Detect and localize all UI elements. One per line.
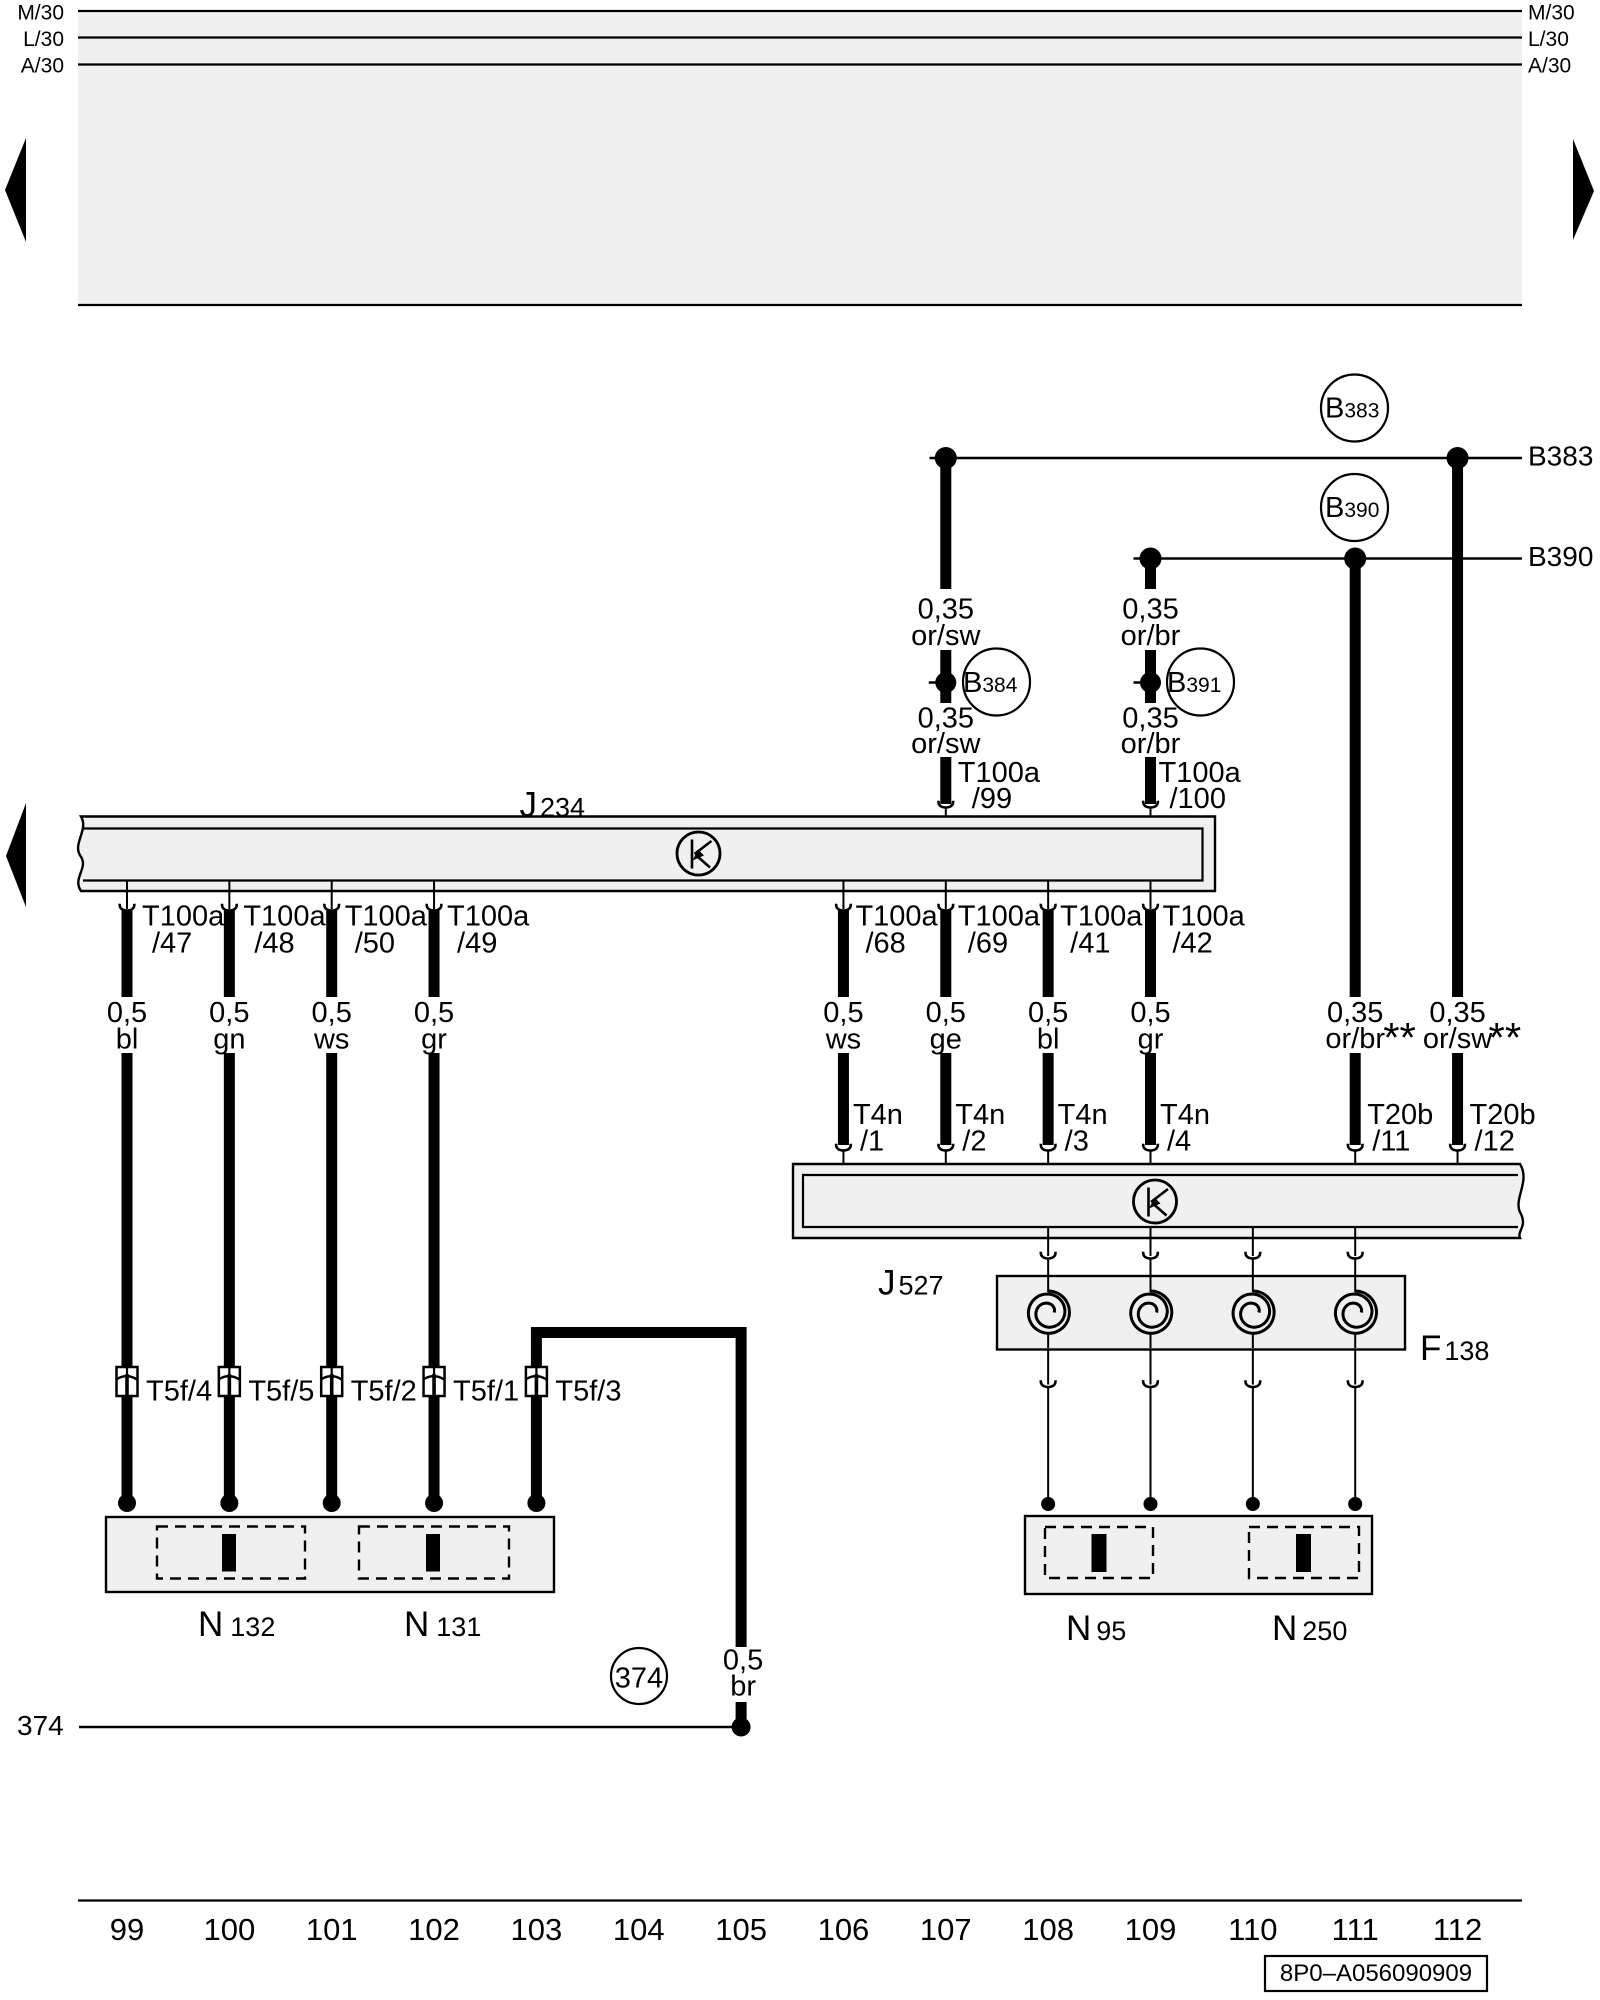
wire 0,5 bl lower segment col108 xyxy=(1043,1053,1054,1145)
F138 element lead top col109 xyxy=(1150,1277,1152,1292)
svg-text:103: 103 xyxy=(511,1912,563,1947)
svg-text:/49: /49 xyxy=(457,928,497,960)
wire segment T5f/1 to N box xyxy=(429,1396,440,1499)
connector cup F138 out col109 xyxy=(1143,1380,1158,1387)
connector cup J527-F138 col110 xyxy=(1246,1252,1261,1259)
pin stub J527 bottom col109 xyxy=(1150,1227,1152,1256)
pin stub J234 bottom T100a/68 xyxy=(842,881,844,910)
svg-text:/3: /3 xyxy=(1065,1126,1089,1158)
connector cup T4n/4 xyxy=(1143,1144,1158,1151)
pin stub into J527 top col108 xyxy=(1047,1151,1049,1177)
wire 0,5 br elbow run xyxy=(536,1333,741,1648)
wire net B390 horizontal xyxy=(1134,557,1523,559)
pin stub J234 bottom T100a/50 xyxy=(331,881,333,910)
connector cup T100a/100 xyxy=(1143,801,1158,808)
svg-text:102: 102 xyxy=(408,1912,460,1947)
svg-text:374: 374 xyxy=(615,1663,663,1695)
drawing number box xyxy=(1265,1956,1487,1991)
connector T5f/4 xyxy=(117,1367,138,1396)
svg-text:/42: /42 xyxy=(1173,928,1213,960)
svg-text:/69: /69 xyxy=(968,928,1008,960)
svg-text:gn: gn xyxy=(213,1024,245,1056)
svg-text:111: 111 xyxy=(1332,1912,1379,1947)
svg-text:bl: bl xyxy=(116,1024,139,1056)
pin stub J234 bottom T100a/49 xyxy=(433,881,435,910)
N132 element dashed outline xyxy=(157,1527,305,1579)
svg-text:or/br: or/br xyxy=(1121,620,1181,652)
F138 element lead top col111 xyxy=(1354,1277,1356,1292)
pin stub into J527 top col106 xyxy=(842,1151,844,1177)
svg-text:374: 374 xyxy=(17,1710,64,1741)
N132 element bar xyxy=(222,1534,236,1572)
pin stub F138 bottom col109 xyxy=(1150,1350,1152,1385)
connector cup T100a/42 xyxy=(1143,904,1158,911)
pin stub F138 bottom col111 xyxy=(1354,1350,1356,1385)
svg-text:**: ** xyxy=(1489,1014,1522,1061)
svg-text:T5f/2: T5f/2 xyxy=(351,1376,417,1408)
svg-text:/100: /100 xyxy=(1170,783,1226,815)
svg-text:107: 107 xyxy=(920,1912,972,1947)
svg-text:L/30: L/30 xyxy=(1528,28,1569,51)
wire 0,35 or/br upper segment xyxy=(1145,559,1156,590)
wire 0,5 gn lower segment col100 xyxy=(224,1053,235,1367)
junction on B390 at col109 xyxy=(1140,548,1162,570)
wire 0,35 or/br middle segment xyxy=(1145,650,1156,703)
continuation arrow left top xyxy=(5,138,26,242)
glow element spiral col110 xyxy=(1233,1291,1274,1333)
svg-text:109: 109 xyxy=(1125,1912,1177,1947)
svg-text:T5f/3: T5f/3 xyxy=(555,1376,621,1408)
pin stub F138 bottom col108 xyxy=(1047,1350,1049,1385)
svg-text:B383: B383 xyxy=(1528,441,1593,472)
glow element spiral col108 xyxy=(1028,1291,1069,1333)
svg-text:or/sw: or/sw xyxy=(911,620,981,652)
wire 0,5 gr upper segment col109 xyxy=(1145,911,1156,998)
connector cup T4n/2 xyxy=(938,1144,953,1151)
F138 element lead top col110 xyxy=(1252,1277,1254,1292)
svg-text:br: br xyxy=(730,1671,756,1703)
wire J527 to F138 col111 xyxy=(1354,1259,1356,1278)
svg-text:105: 105 xyxy=(715,1912,767,1947)
pin stub into J527 top col109 xyxy=(1150,1151,1152,1177)
pin stub J234 bottom T100a/69 xyxy=(945,881,947,910)
N131 element dashed outline xyxy=(359,1527,509,1579)
connector cup F138 out col110 xyxy=(1246,1380,1261,1387)
svg-text:T5f/1: T5f/1 xyxy=(453,1376,519,1408)
svg-text:/48: /48 xyxy=(254,928,294,960)
svg-text:or/br: or/br xyxy=(1325,1023,1385,1055)
wire M/30 rail xyxy=(78,10,1522,12)
ground designation circle 374 xyxy=(611,1648,667,1704)
connector cup F138 out col111 xyxy=(1348,1380,1363,1387)
svg-text:99: 99 xyxy=(110,1912,144,1947)
wire 0,5 gn upper segment col100 xyxy=(224,911,235,998)
junction dot col111 on N95/N250 box xyxy=(1348,1497,1362,1511)
pin stub J234 bottom T100a/47 xyxy=(126,881,128,910)
wire segment T5f/5 to N box xyxy=(224,1396,235,1499)
wire L/30 rail xyxy=(78,36,1522,38)
continuation arrow right top xyxy=(1573,139,1594,240)
junction dot col102 on N box xyxy=(425,1494,443,1512)
junction dot col101 on N box xyxy=(323,1494,341,1512)
svg-text:ws: ws xyxy=(825,1024,861,1056)
svg-text:/2: /2 xyxy=(962,1126,986,1158)
wire 0,35 or/sw lower segment xyxy=(940,757,951,804)
svg-text:100: 100 xyxy=(203,1912,255,1947)
wire net 374 horizontal xyxy=(79,1726,741,1728)
wire J527 to F138 col108 xyxy=(1047,1259,1049,1278)
pin stub F138 bottom col110 xyxy=(1252,1350,1254,1385)
svg-text:/11: /11 xyxy=(1372,1126,1410,1158)
fuse box F138 xyxy=(997,1276,1405,1350)
diagnostic K symbol J234 xyxy=(677,832,720,875)
wire 0,5 ws upper segment col106 xyxy=(838,911,849,998)
pin stub into J527 top col111 xyxy=(1354,1151,1356,1177)
F138 element lead top col108 xyxy=(1047,1277,1049,1292)
pin stub J234 bottom T100a/41 xyxy=(1047,881,1049,910)
junction on B383 at col107 xyxy=(935,447,957,469)
sensor circle B390 xyxy=(1321,474,1388,541)
connector cup J527-F138 col108 xyxy=(1041,1252,1056,1259)
J527 inner frame xyxy=(803,1175,1518,1227)
wire segment T5f/3 to N box xyxy=(531,1396,542,1499)
svg-text:/50: /50 xyxy=(355,928,395,960)
svg-text:ge: ge xyxy=(930,1024,962,1056)
connector cup T100a/41 xyxy=(1041,904,1056,911)
N250 element bar xyxy=(1296,1534,1311,1572)
power rail band 30 xyxy=(78,11,1522,305)
connector T5f/3 xyxy=(526,1367,547,1396)
wire F138 to N box col109 xyxy=(1150,1387,1152,1498)
svg-text:/47: /47 xyxy=(152,928,192,960)
svg-text:gr: gr xyxy=(1138,1024,1164,1056)
wire 0,5 ws lower segment col106 xyxy=(838,1053,849,1145)
connector cup T100a/48 xyxy=(222,904,237,911)
svg-text:bl: bl xyxy=(1037,1024,1060,1056)
svg-text:112: 112 xyxy=(1433,1912,1482,1947)
svg-text:101: 101 xyxy=(306,1912,358,1947)
connector cup F138 out col108 xyxy=(1041,1380,1056,1387)
junction dot col109 on N95/N250 box xyxy=(1144,1497,1158,1511)
svg-text:M/30: M/30 xyxy=(17,2,64,25)
N250 element dashed outline xyxy=(1249,1527,1359,1578)
component box N95/N250 xyxy=(1025,1516,1372,1594)
wire 0,5 ws upper segment col101 xyxy=(326,911,337,998)
connector cup T100a/47 xyxy=(120,904,135,911)
pin stub J527 bottom col111 xyxy=(1354,1227,1356,1256)
pin stub into J234 top xyxy=(1150,808,1152,830)
N95 element dashed outline xyxy=(1045,1527,1153,1578)
svg-text:M/30: M/30 xyxy=(1528,2,1575,25)
pin stub J527 bottom col108 xyxy=(1047,1227,1049,1256)
svg-text:8P0–A056090909: 8P0–A056090909 xyxy=(1280,1960,1472,1987)
svg-text:ws: ws xyxy=(313,1024,349,1056)
svg-text:A/30: A/30 xyxy=(21,55,64,78)
track scale line xyxy=(78,1899,1522,1901)
node B391 junction dot xyxy=(1140,672,1161,693)
component box N132/N131 xyxy=(106,1517,554,1592)
node B384 junction dot xyxy=(935,672,956,693)
wire 0,35 or/br** upper segment col111 xyxy=(1350,564,1361,998)
svg-text:/68: /68 xyxy=(865,928,905,960)
svg-text:**: ** xyxy=(1383,1014,1416,1061)
N131 element bar xyxy=(426,1534,440,1572)
pin stub J234 bottom T100a/48 xyxy=(228,881,230,910)
connector cup T100a/68 xyxy=(836,904,851,911)
connector T5f/1 xyxy=(424,1367,445,1396)
wire 0,5 ge lower segment col107 xyxy=(940,1053,951,1145)
wire 0,35 or/sw upper segment xyxy=(940,458,951,589)
svg-text:T5f/4: T5f/4 xyxy=(146,1376,212,1408)
svg-text:106: 106 xyxy=(818,1912,870,1947)
junction on B390 at col111 xyxy=(1344,548,1366,570)
wire 0,5 ge upper segment col107 xyxy=(940,911,951,998)
measuring point tick B391 xyxy=(1134,681,1151,684)
wire F138 to N box col108 xyxy=(1047,1387,1049,1498)
glow element spiral col109 xyxy=(1131,1291,1172,1333)
svg-text:104: 104 xyxy=(613,1912,665,1947)
F138 element lead bottom col108 xyxy=(1047,1334,1049,1348)
wire segment T5f/4 to N box xyxy=(122,1396,133,1499)
wire 0,5 br lower segment xyxy=(736,1702,747,1723)
svg-text:/4: /4 xyxy=(1167,1126,1191,1158)
connector T5f/2 xyxy=(321,1367,342,1396)
continuation arrow left at J234 xyxy=(6,803,26,907)
connector cup T20b/11 xyxy=(1348,1144,1363,1151)
svg-text:gr: gr xyxy=(421,1024,447,1056)
wire 0,35 or/sw** lower segment col112 xyxy=(1452,1053,1463,1145)
sensor circle B384 xyxy=(963,649,1030,716)
junction dot col108 on N95/N250 box xyxy=(1041,1497,1055,1511)
connector cup T4n/1 xyxy=(836,1144,851,1151)
wire J527 to F138 col110 xyxy=(1252,1259,1254,1278)
wire 0,5 bl lower segment col99 xyxy=(122,1053,133,1367)
connector cup J527-F138 col111 xyxy=(1348,1252,1363,1259)
control unit J527 box xyxy=(793,1164,1524,1238)
junction dot col100 on N box xyxy=(220,1494,238,1512)
pin stub into J234 top xyxy=(945,808,947,830)
wire net B383 horizontal xyxy=(930,457,1523,459)
wire F138 to N box col110 xyxy=(1252,1387,1254,1498)
F138 element lead bottom col111 xyxy=(1354,1334,1356,1348)
pin stub into J527 top col107 xyxy=(945,1151,947,1177)
svg-text:108: 108 xyxy=(1022,1912,1074,1947)
J234 inner frame xyxy=(83,829,1203,881)
glow element spiral col111 xyxy=(1335,1291,1376,1333)
svg-text:or/sw: or/sw xyxy=(911,728,981,760)
wire 0,5 gr upper segment col102 xyxy=(429,911,440,998)
junction dot on 374 line xyxy=(732,1718,751,1737)
svg-text:/41: /41 xyxy=(1070,928,1110,960)
svg-text:L/30: L/30 xyxy=(23,28,64,51)
rail band bottom edge xyxy=(78,304,1522,306)
diagnostic K symbol J527 xyxy=(1134,1180,1177,1223)
connector T5f/5 xyxy=(219,1367,240,1396)
wire J527 to F138 col109 xyxy=(1150,1259,1152,1278)
junction dot col99 on N box xyxy=(118,1494,136,1512)
svg-text:/1: /1 xyxy=(860,1126,884,1158)
wire 0,5 bl upper segment col108 xyxy=(1043,911,1054,998)
wire 0,35 or/sw middle segment xyxy=(940,650,951,703)
connector cup T20b/12 xyxy=(1450,1144,1465,1151)
svg-text:110: 110 xyxy=(1228,1912,1277,1947)
connector cup T4n/3 xyxy=(1041,1144,1056,1151)
wire 0,35 or/br** lower segment col111 xyxy=(1350,1053,1361,1145)
wire F138 to N box col111 xyxy=(1354,1387,1356,1498)
svg-text:B390: B390 xyxy=(1528,541,1593,572)
svg-text:/12: /12 xyxy=(1475,1126,1515,1158)
wire 0,5 gr lower segment col102 xyxy=(429,1053,440,1367)
wire 0,35 or/br lower segment xyxy=(1145,757,1156,804)
svg-text:T5f/5: T5f/5 xyxy=(248,1376,314,1408)
connector cup T100a/49 xyxy=(427,904,442,911)
pin stub J527 bottom col110 xyxy=(1252,1227,1254,1256)
wire 0,5 bl upper segment col99 xyxy=(122,911,133,998)
pin stub into J527 top col112 xyxy=(1457,1151,1459,1177)
svg-text:or/sw: or/sw xyxy=(1423,1023,1493,1055)
F138 element lead bottom col110 xyxy=(1252,1334,1254,1348)
connector cup T100a/99 xyxy=(938,801,953,808)
junction dot col110 on N95/N250 box xyxy=(1246,1497,1260,1511)
junction on B383 at col112 xyxy=(1447,447,1469,469)
wire 0,5 ws lower segment col101 xyxy=(326,1053,337,1367)
svg-text:A/30: A/30 xyxy=(1528,55,1571,78)
wire 0,5 gr lower segment col109 xyxy=(1145,1053,1156,1145)
wire segment T5f/2 to N box xyxy=(326,1396,337,1499)
junction dot col103 on N box xyxy=(527,1494,545,1512)
sensor circle B383 xyxy=(1321,375,1388,442)
connector cup T100a/50 xyxy=(324,904,339,911)
measuring point tick B384 xyxy=(929,681,946,684)
N95 element bar xyxy=(1092,1534,1107,1572)
pin stub J234 bottom T100a/42 xyxy=(1150,881,1152,910)
sensor circle B391 xyxy=(1167,649,1234,716)
svg-text:or/br: or/br xyxy=(1121,728,1181,760)
svg-text:/99: /99 xyxy=(972,783,1012,815)
F138 element lead bottom col109 xyxy=(1150,1334,1152,1348)
control unit J234 box xyxy=(78,817,1215,892)
wire 0,35 or/sw** upper segment col112 xyxy=(1452,463,1463,997)
connector cup J527-F138 col109 xyxy=(1143,1252,1158,1259)
wire A/30 rail xyxy=(78,63,1522,65)
connector cup T100a/69 xyxy=(938,904,953,911)
